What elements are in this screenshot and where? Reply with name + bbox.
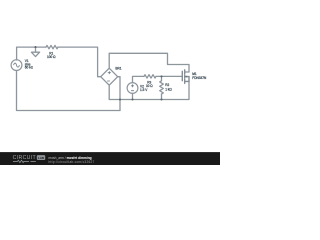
- junction ground tap: [34, 46, 36, 48]
- wire R2 bottom lead: [161, 94, 163, 100]
- svg-text:FDN337N: FDN337N: [192, 76, 207, 80]
- voltage source V1 circle: [11, 60, 22, 71]
- wire R1 to bridge left corner: [58, 47, 101, 77]
- resistor R1: [46, 45, 58, 48]
- bridge rectifier BR1: [101, 68, 118, 85]
- wire R3 to gate: [156, 75, 182, 77]
- mosfet body arrow: [185, 76, 187, 78]
- source stub: [185, 80, 189, 82]
- wire bridge bottom to rail and mosfet source: [109, 81, 189, 99]
- footer bar: [0, 152, 220, 165]
- V2 minus mark: [131, 90, 133, 92]
- wire V2 top to R3: [133, 76, 145, 82]
- junction dots: [34, 46, 162, 100]
- mosfet M1: [182, 70, 189, 84]
- junction R2 bottom: [160, 98, 162, 100]
- svg-text:CIRCUIT: CIRCUIT: [13, 155, 37, 161]
- svg-text:http://circuitlab.com/c32627: http://circuitlab.com/c32627: [49, 160, 95, 164]
- junction gate node: [160, 75, 162, 77]
- logo squiggle: [13, 160, 36, 162]
- bridge plus mark: [108, 72, 110, 74]
- svg-text:BR1: BR1: [115, 66, 121, 70]
- svg-text:1 kΩ: 1 kΩ: [165, 87, 172, 91]
- V2 plus mark: [131, 85, 133, 87]
- svg-text:LAB: LAB: [38, 156, 45, 160]
- logo LAB box: [37, 155, 45, 160]
- junction V2 bottom: [131, 98, 133, 100]
- wire bridge right corner down: [118, 77, 120, 111]
- body line: [185, 77, 189, 82]
- svg-text:R2: R2: [165, 83, 169, 87]
- gate bar: [181, 71, 183, 80]
- wire V1 bottom rail: [17, 71, 121, 111]
- channel top segment: [184, 70, 186, 74]
- junction bottom cross: [119, 98, 121, 100]
- svg-text:1.5 V: 1.5 V: [140, 88, 148, 92]
- channel bottom segment: [184, 79, 186, 83]
- V1 sine glyph: [14, 63, 20, 67]
- wire V1 top lead to top rail: [17, 47, 46, 60]
- svg-text:10 Ω: 10 Ω: [146, 84, 153, 88]
- ground: [31, 47, 39, 57]
- svg-text:60 Hz: 60 Hz: [25, 66, 34, 70]
- bridge minus mark: [107, 80, 109, 82]
- wire R2 top lead: [161, 76, 163, 80]
- resistor R3: [144, 75, 156, 78]
- wire bridge top to mosfet drain: [109, 53, 189, 72]
- voltage source V2 circle: [127, 83, 138, 94]
- resistor R2: [160, 81, 164, 94]
- wire V2 bottom: [132, 93, 134, 99]
- component labels: [25, 51, 207, 92]
- svg-text:100 Ω: 100 Ω: [47, 55, 56, 59]
- channel mid segment: [184, 75, 186, 78]
